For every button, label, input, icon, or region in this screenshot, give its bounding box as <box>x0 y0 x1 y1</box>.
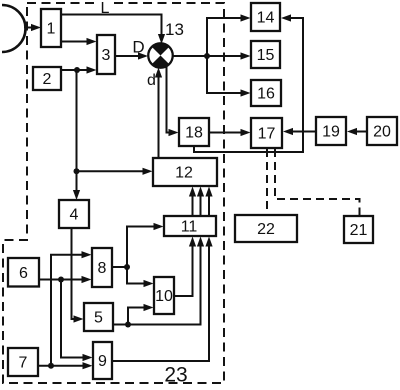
wire 8 out <box>112 223 164 287</box>
junction dot G <box>48 363 54 369</box>
wire 6 to 8 <box>39 276 92 283</box>
wire mixer out to 15 <box>173 52 251 59</box>
wire 10 to 11 <box>174 237 196 297</box>
svg-text:D: D <box>132 38 144 57</box>
svg-text:2: 2 <box>43 71 52 88</box>
block 10 <box>154 277 174 314</box>
junction dot D <box>125 322 131 328</box>
wire 5 to 11 <box>113 237 204 325</box>
block 9 <box>93 342 112 379</box>
antenna arc <box>2 5 26 52</box>
dashed 17 to 21 <box>275 149 360 215</box>
wire D: 3 to mixer <box>115 52 148 59</box>
junction dot A <box>74 67 80 73</box>
svg-text:10: 10 <box>155 288 173 305</box>
wire to 14 <box>207 14 251 56</box>
wire L: 1 to mixer top <box>61 15 165 45</box>
block 1 <box>41 9 61 47</box>
svg-text:15: 15 <box>257 47 275 64</box>
svg-text:12: 12 <box>175 165 193 182</box>
svg-text:13: 13 <box>165 20 184 39</box>
block 12 <box>153 158 217 186</box>
block 21 <box>344 216 373 243</box>
wire 9 to 11 <box>113 237 213 362</box>
svg-text:23: 23 <box>164 364 187 387</box>
block 2 <box>33 67 61 90</box>
junction dot E <box>124 264 130 270</box>
wire 7 to 9 <box>39 362 93 369</box>
svg-text:17: 17 <box>258 126 276 143</box>
wire 18 to 17 <box>209 129 251 136</box>
wire 5 branch to 10 <box>128 304 154 325</box>
svg-text:14: 14 <box>257 10 275 27</box>
svg-text:3: 3 <box>102 47 111 64</box>
junction dot B <box>74 168 80 174</box>
svg-text:L: L <box>101 0 110 17</box>
block 7 <box>8 348 38 376</box>
svg-text:19: 19 <box>322 124 340 141</box>
svg-text:5: 5 <box>94 310 103 327</box>
wire 4 to 5 <box>72 228 84 323</box>
wire 7 branch to 8 <box>51 251 92 366</box>
svg-text:21: 21 <box>350 222 368 239</box>
wire mixer to 18 <box>167 66 179 136</box>
dashed border 23 <box>3 3 224 383</box>
wire 20 to 19 <box>347 128 367 135</box>
wire 18 bottom to 14 feedback <box>194 14 303 152</box>
block 3 <box>97 35 115 74</box>
wire 1 to 3 <box>61 38 97 45</box>
wire arc to 1 <box>24 24 41 31</box>
block 18 <box>179 118 209 146</box>
dashed 17 to 22 <box>266 149 268 214</box>
block 17 <box>251 118 282 148</box>
block 19 <box>316 117 346 145</box>
svg-text:6: 6 <box>19 265 28 282</box>
svg-text:4: 4 <box>70 207 79 224</box>
svg-text:9: 9 <box>98 353 107 370</box>
svg-text:11: 11 <box>181 219 198 236</box>
svg-text:7: 7 <box>19 355 28 372</box>
svg-text:1: 1 <box>47 21 56 38</box>
junction dot C <box>204 53 210 59</box>
block 15 <box>251 41 280 68</box>
svg-text:d: d <box>147 72 156 89</box>
block 4 <box>59 200 89 228</box>
wires 11 to 12 <box>189 187 213 217</box>
svg-text:22: 22 <box>257 221 275 238</box>
svg-text:18: 18 <box>185 125 203 142</box>
block 5 <box>84 303 113 331</box>
wire 2 to 3 <box>61 66 97 73</box>
wire 6 branch to 9 <box>61 280 93 362</box>
block 11 <box>164 216 216 236</box>
mixer 13 <box>148 43 173 68</box>
wire to 16 <box>207 56 251 97</box>
svg-text:8: 8 <box>98 260 107 277</box>
junction dot F <box>58 277 64 283</box>
block 14 <box>251 3 280 31</box>
block 20 <box>367 117 397 145</box>
wire 19 to 17 <box>283 128 316 135</box>
svg-text:20: 20 <box>373 124 391 141</box>
block 6 <box>8 258 39 287</box>
wire 12 to mixer bottom <box>155 68 162 159</box>
label L <box>98 0 113 17</box>
block 8 <box>92 248 112 287</box>
block 22 <box>235 215 297 242</box>
wire junction down to 12 and 4 <box>73 70 153 200</box>
block 16 <box>251 80 281 106</box>
svg-text:16: 16 <box>257 86 275 103</box>
